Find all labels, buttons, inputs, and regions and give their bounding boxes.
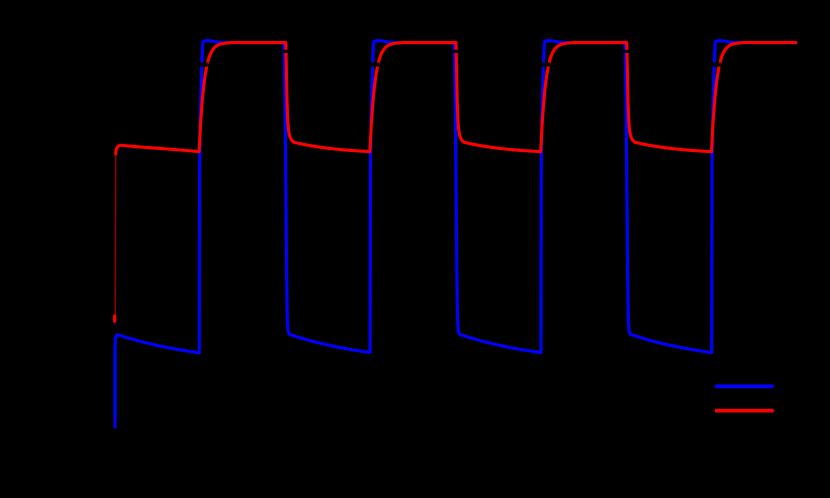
black input-wave notches	[199, 63, 209, 67]
blue output curve	[115, 41, 795, 427]
legend blue line	[715, 385, 774, 389]
legend red line	[715, 409, 774, 413]
red start cap	[113, 316, 116, 321]
red output curve	[116, 43, 796, 154]
red initial transient (darkened)	[114, 152, 116, 315]
